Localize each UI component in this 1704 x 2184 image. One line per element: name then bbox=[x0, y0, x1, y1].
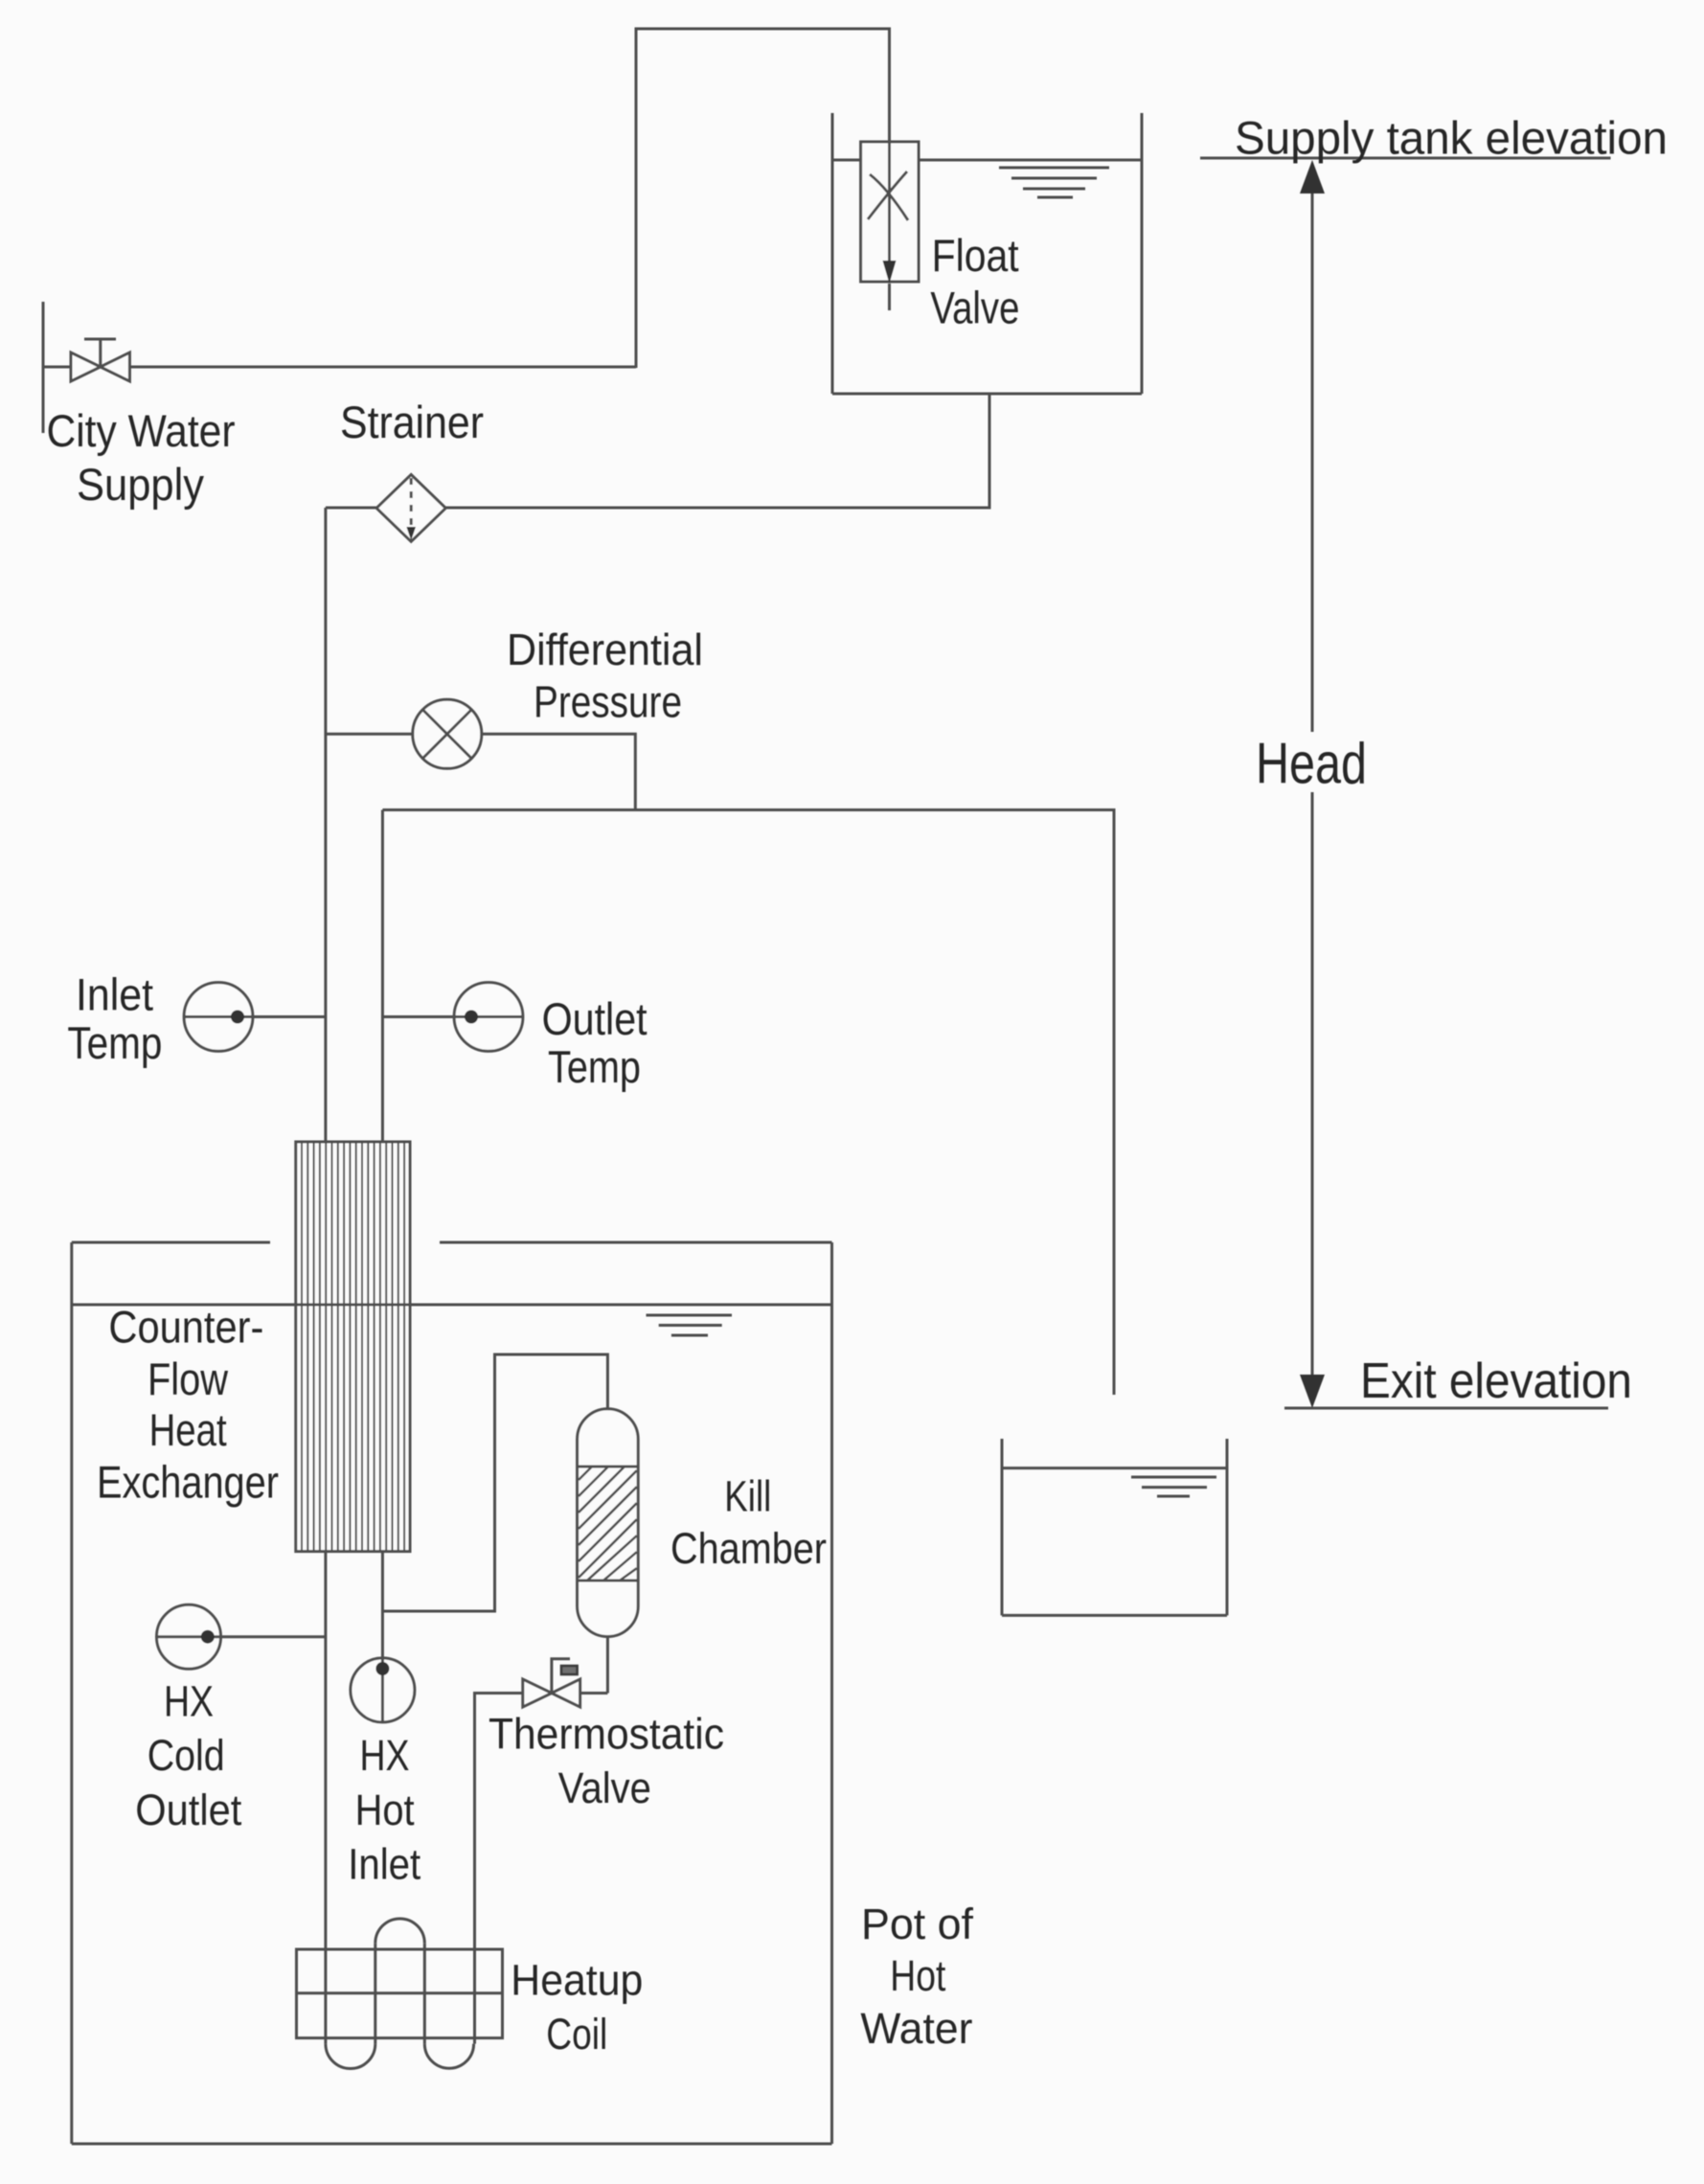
strainer bbox=[376, 475, 445, 542]
differential pressure instrument bbox=[413, 699, 482, 768]
svg-text:Valve: Valve bbox=[558, 1763, 651, 1812]
wire: city water supply horizontal line bbox=[43, 366, 636, 369]
elevation datum: supply tank elevation underline bbox=[1200, 157, 1611, 160]
label: Outlet Temp bbox=[542, 993, 648, 1092]
lower tank water level symbol bbox=[1131, 1477, 1216, 1496]
svg-text:Inlet: Inlet bbox=[348, 1840, 420, 1889]
label: Thermostatic Valve bbox=[488, 1710, 724, 1813]
wire: cold-side main pipe (strainer down to heatup coil) bbox=[324, 508, 327, 2044]
svg-text:Exit elevation: Exit elevation bbox=[1360, 1354, 1632, 1409]
svg-text:Chamber: Chamber bbox=[670, 1524, 827, 1573]
svg-text:Float: Float bbox=[932, 230, 1019, 281]
wire: strainer inlet line bbox=[326, 507, 376, 510]
wire: differential pressure branch right, down to return header bbox=[482, 734, 636, 809]
label: HX Hot Inlet bbox=[348, 1731, 420, 1889]
gauge: Inlet Temp bbox=[184, 983, 326, 1052]
svg-text:Outlet: Outlet bbox=[135, 1786, 241, 1834]
heatup coil box bbox=[297, 1949, 503, 2038]
wire: kill chamber outlet to valve bbox=[580, 1692, 608, 1695]
svg-text:Pot of: Pot of bbox=[861, 1900, 973, 1948]
svg-text:Supply tank elevation: Supply tank elevation bbox=[1235, 114, 1668, 165]
label: Pot of Hot Water bbox=[860, 1900, 973, 2053]
label: Float Valve bbox=[930, 230, 1019, 332]
svg-text:Head: Head bbox=[1256, 732, 1367, 796]
svg-text:City Water: City Water bbox=[47, 405, 236, 456]
gauge: HX Cold Outlet bbox=[157, 1604, 326, 1669]
pot water line bbox=[72, 1304, 832, 1307]
supply tank bbox=[832, 113, 1142, 394]
svg-text:Pressure: Pressure bbox=[534, 677, 682, 727]
svg-text:Differential: Differential bbox=[507, 625, 703, 674]
svg-text:HX: HX bbox=[164, 1677, 214, 1726]
svg-text:Flow: Flow bbox=[148, 1354, 229, 1404]
label: Heatup Coil bbox=[511, 1955, 643, 2059]
wire: city water supply stub bbox=[42, 302, 45, 433]
svg-text:Heat: Heat bbox=[149, 1404, 227, 1455]
wire: hot-side return pipe bbox=[381, 810, 384, 1612]
lower exit tank bbox=[1002, 1439, 1227, 1615]
svg-text:Supply: Supply bbox=[77, 459, 204, 510]
svg-text:Heatup: Heatup bbox=[511, 1955, 643, 2004]
svg-text:Exchanger: Exchanger bbox=[97, 1457, 279, 1508]
svg-text:Hot: Hot bbox=[355, 1786, 415, 1834]
label: Exit elevation bbox=[1360, 1354, 1632, 1409]
svg-text:Inlet: Inlet bbox=[76, 968, 153, 1019]
gauge: HX Hot Inlet bbox=[351, 1611, 415, 1722]
head dimension arrow bbox=[1300, 160, 1325, 1408]
valve: city water supply shutoff bbox=[71, 339, 129, 381]
elevation datum: exit elevation underline bbox=[1284, 1407, 1608, 1410]
wire: kill chamber outlet stub bbox=[606, 1637, 609, 1694]
wire: valve to heatup coil downcomer bbox=[475, 1694, 523, 2044]
svg-text:Counter-: Counter- bbox=[108, 1302, 263, 1353]
svg-text:Kill: Kill bbox=[724, 1472, 771, 1521]
pot water level symbol bbox=[647, 1315, 733, 1335]
label: City Water Supply bbox=[47, 405, 236, 510]
svg-text:Thermostatic: Thermostatic bbox=[488, 1710, 724, 1759]
thermostatic valve TV bbox=[523, 1659, 580, 1707]
label: Kill Chamber bbox=[670, 1472, 827, 1574]
svg-text:Outlet: Outlet bbox=[542, 993, 648, 1044]
svg-text:Hot: Hot bbox=[890, 1951, 945, 2000]
svg-text:HX: HX bbox=[360, 1731, 410, 1780]
counter-flow heat exchanger HX bbox=[296, 1142, 410, 1552]
label: Head bbox=[1256, 732, 1367, 796]
float valve FV bbox=[861, 142, 919, 284]
svg-text:Cold: Cold bbox=[148, 1731, 225, 1780]
label: Supply tank elevation bbox=[1235, 114, 1668, 165]
svg-text:Valve: Valve bbox=[930, 282, 1019, 332]
label: HX Cold Outlet bbox=[135, 1677, 241, 1834]
svg-text:Water: Water bbox=[860, 2004, 972, 2053]
svg-text:Temp: Temp bbox=[548, 1041, 641, 1092]
wire: return header to exit pipe bbox=[382, 810, 1114, 1396]
label: Differential Pressure bbox=[507, 625, 703, 727]
label: Strainer bbox=[340, 397, 484, 447]
wire: strainer to supply tank outlet bbox=[445, 394, 989, 508]
svg-text:Temp: Temp bbox=[67, 1017, 162, 1068]
wire: hot inlet header (HX pipe to kill chamber riser) bbox=[382, 1354, 607, 1611]
label: Inlet Temp bbox=[67, 968, 162, 1068]
svg-text:Coil: Coil bbox=[546, 2010, 607, 2059]
pot of hot water: vessel walls bbox=[72, 1242, 832, 2144]
supply tank water level symbol bbox=[999, 168, 1109, 197]
gauge: Outlet Temp bbox=[382, 983, 523, 1052]
heatup coil serpentine bbox=[326, 1919, 474, 2069]
wire: differential pressure branch left bbox=[326, 733, 412, 736]
svg-text:Strainer: Strainer bbox=[340, 397, 484, 447]
label: Counter-Flow Heat Exchanger bbox=[97, 1302, 279, 1508]
wire: top feed loop from city water line to float valve bbox=[636, 29, 890, 368]
kill chamber vessel bbox=[578, 1409, 639, 1637]
